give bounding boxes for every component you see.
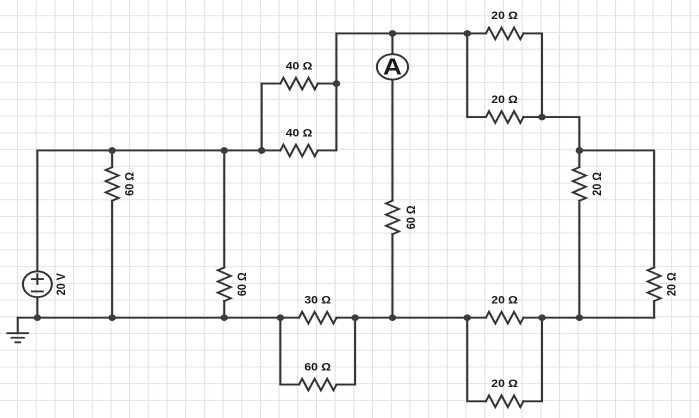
svg-text:60 Ω: 60 Ω (124, 172, 137, 196)
svg-text:20 V: 20 V (55, 273, 68, 296)
svg-text:20 Ω: 20 Ω (666, 272, 679, 296)
svg-text:20 Ω: 20 Ω (491, 379, 518, 390)
svg-text:40 Ω: 40 Ω (286, 128, 313, 139)
svg-text:20 Ω: 20 Ω (591, 172, 604, 196)
svg-text:30 Ω: 30 Ω (304, 295, 331, 306)
svg-text:20 Ω: 20 Ω (491, 11, 518, 22)
svg-text:60 Ω: 60 Ω (304, 362, 331, 373)
svg-text:A: A (383, 55, 402, 80)
svg-text:60 Ω: 60 Ω (405, 205, 418, 229)
svg-text:20 Ω: 20 Ω (491, 295, 518, 306)
svg-text:20 Ω: 20 Ω (491, 94, 518, 105)
svg-text:40 Ω: 40 Ω (286, 61, 313, 72)
svg-text:60 Ω: 60 Ω (236, 272, 249, 296)
